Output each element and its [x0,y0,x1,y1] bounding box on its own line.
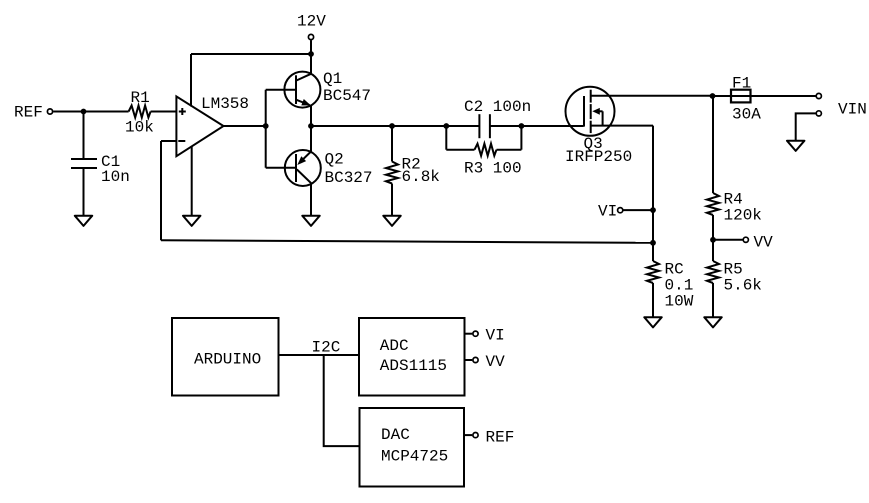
wire R2 bottom [391,184,393,216]
resistor RC [647,261,659,283]
wire emitter rail [311,125,446,127]
ground under Q2 [302,216,320,226]
svg-text:VV: VV [486,353,506,371]
wire VV lead [713,239,743,241]
op-amp + input marking [179,108,186,115]
wire Q2 base [266,167,296,169]
node VV junction [710,237,716,243]
block ADC ADS1115 [359,318,465,396]
wire VIN- to ground [796,113,816,140]
ground under C1 [75,216,93,226]
wire - input stub [161,140,176,142]
svg-text:10n: 10n [101,168,130,186]
wire fuse lead left [713,95,732,97]
resistor R5 [707,261,719,283]
wire R4 top [712,96,714,193]
svg-text:VI: VI [598,203,617,221]
wire R5 top [712,240,714,261]
svg-text:I2C: I2C [312,339,341,357]
svg-text:120k: 120k [724,207,762,225]
terminal ADC VI [473,331,478,336]
svg-text:C2 100n: C2 100n [464,98,531,116]
capacitor C2 [479,114,490,138]
svg-text:10W: 10W [665,293,694,311]
wire VI lead [623,209,653,211]
node 12V rail junction [308,51,314,57]
terminal VIN- [816,111,821,116]
svg-text:F1: F1 [732,75,751,93]
svg-text:12V: 12V [297,13,326,31]
svg-text:VV: VV [754,234,774,252]
wire 12V rail [191,53,311,55]
resistor R1 [129,106,151,118]
fuse F1 [731,90,751,103]
transistor Q2 BC327 [285,126,321,215]
wire to C2 [446,125,479,127]
wire gate lead [521,125,583,127]
svg-text:VIN: VIN [838,101,867,119]
terminal DAC REF [473,433,478,438]
svg-text:MCP4725: MCP4725 [381,448,448,466]
svg-text:VI: VI [486,327,505,345]
node drain junction [710,93,716,99]
svg-text:BC327: BC327 [325,169,373,187]
wire R3 right lead [497,149,522,151]
ground under op-amp [183,216,201,226]
wire source vertical [652,126,654,261]
node VI junction [650,207,656,213]
svg-text:R3 100: R3 100 [464,160,522,178]
svg-text:R1: R1 [131,89,150,107]
wire R3 left drop [445,126,447,150]
node A junction [81,109,87,115]
svg-text:ADC: ADC [380,337,409,355]
ground at VIN- [787,141,805,151]
svg-text:30A: 30A [732,106,761,124]
ground under RC [644,317,662,327]
svg-text:ADS1115: ADS1115 [380,357,447,375]
wire 12V stem [310,40,312,54]
wire I2C bus [279,354,360,356]
wire feedback vertical [160,141,162,240]
svg-text:IRFP250: IRFP250 [565,148,632,166]
wire R4 bottom [712,215,714,240]
svg-text:10k: 10k [125,119,154,137]
ground under R2 [383,216,401,226]
node R2 top junction [389,123,395,129]
wire drain rail [614,95,713,97]
svg-text:5.6k: 5.6k [724,277,762,295]
wire node A to C1 [83,112,85,160]
wire I2C to DAC [324,355,360,446]
node emitter rail junction [308,123,314,129]
wire R3 right rise [520,126,522,150]
wire R1 to op-amp + input [151,111,177,113]
node C2-R3 left junction [443,123,449,129]
wire base feed vertical [265,90,267,168]
resistor R4 [707,193,719,215]
svg-text:6.8k: 6.8k [402,168,440,186]
capacitor C1 [71,159,97,168]
resistor R2 [386,162,398,184]
op-amp U1 LM358 body [176,96,223,156]
svg-text:BC547: BC547 [323,87,371,105]
wire Q1 base [266,89,296,91]
node op-amp output junction [263,123,269,129]
wire DAC REF lead [464,434,472,436]
wire C1 to ground [83,168,85,215]
wire ADC VI lead [465,333,473,335]
wire op-amp output [224,125,266,127]
svg-text:DAC: DAC [381,426,410,444]
wire fuse to VIN [751,95,816,97]
wire R2 top [391,126,393,162]
transistor Q1 BC547 [284,54,320,126]
svg-text:REF: REF [486,429,515,447]
terminal VV [743,237,748,242]
svg-text:Q1: Q1 [323,70,342,88]
svg-text:ARDUINO: ARDUINO [194,351,261,369]
wire RC bottom [652,283,654,317]
svg-text:REF: REF [14,104,43,122]
terminal ADC VV [473,357,478,362]
wire op-amp V- pin to ground [191,146,193,215]
terminal VIN+ [816,93,821,98]
block DAC MCP4725 [360,408,465,487]
terminal VI [618,208,623,213]
wire op-amp V+ pin to 12V rail [190,54,192,107]
svg-text:LM358: LM358 [201,95,249,113]
wire feedback horizontal [161,240,653,243]
transistor Q3 IRFP250 [566,87,654,136]
op-amp - input marking [178,140,185,142]
resistor R3 [475,144,497,156]
svg-text:Q2: Q2 [325,151,344,169]
wire R3 left lead [446,149,474,151]
wire node A to R1 [84,111,129,113]
terminal 12V [308,34,313,39]
terminal REF [47,109,52,114]
block ARDUINO [172,318,279,396]
wire R5 bottom [712,283,714,317]
node C2-R3 right junction [519,123,525,129]
wire ADC VV lead [465,359,473,361]
wire C2 to right junction [490,125,522,127]
node feedback junction [650,240,656,246]
ground under R5 [704,317,722,327]
wire REF to node A [53,111,83,113]
